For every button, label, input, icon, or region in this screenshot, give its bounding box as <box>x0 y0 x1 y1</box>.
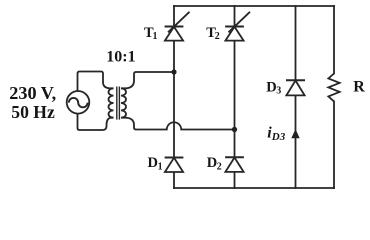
wire secondary top lead to node A <box>121 72 174 88</box>
thyristor T2 cathode bar <box>226 26 243 28</box>
diode D2 triangle <box>225 158 243 172</box>
thyristor T1 triangle <box>165 27 183 41</box>
thyristor T2 triangle <box>225 27 243 41</box>
svg-text:50 Hz: 50 Hz <box>11 102 55 122</box>
wire D3 branch top segment <box>295 6 297 80</box>
wire D2 branch bottom segment <box>234 172 236 188</box>
wire D1 branch bottom segment <box>173 172 175 188</box>
wire secondary bottom lead with crossover hop to node B <box>121 118 235 130</box>
svg-text:R: R <box>353 79 365 96</box>
svg-text:iD3: iD3 <box>267 124 285 143</box>
wire D3 branch bottom segment <box>295 96 297 189</box>
wire T1 branch top segment <box>173 6 175 27</box>
svg-text:D2: D2 <box>207 155 222 172</box>
diode D3 triangle <box>286 81 304 96</box>
wire primary bottom lead to source <box>78 113 114 130</box>
node A junction dot <box>171 69 176 74</box>
wire R branch bottom segment <box>333 101 335 188</box>
ac source V1 230V 50Hz <box>67 91 90 114</box>
svg-text:D3: D3 <box>266 79 281 96</box>
svg-text:T2: T2 <box>206 25 219 42</box>
resistor R zigzag <box>328 74 339 102</box>
thyristor T2 gate line <box>229 12 251 33</box>
svg-text:230 V,: 230 V, <box>9 83 56 103</box>
wire primary top lead from source <box>78 72 114 92</box>
svg-text:T1: T1 <box>144 25 157 42</box>
current iD3 arrowhead <box>291 129 299 138</box>
diode D1 triangle <box>165 158 183 172</box>
wire R branch top segment <box>333 6 335 74</box>
diode D3 cathode bar <box>287 79 304 81</box>
wire bottom rail <box>174 187 334 189</box>
transformer core line left <box>116 87 118 120</box>
wire top rail <box>174 5 334 7</box>
wire T2-D2 branch middle segment <box>234 41 236 158</box>
ac source sine symbol <box>69 98 88 107</box>
thyristor T1 cathode bar <box>166 26 183 28</box>
transformer primary winding <box>109 88 114 117</box>
node B junction dot <box>232 127 237 132</box>
diode D1 cathode bar <box>166 157 183 159</box>
wire T1-D1 branch middle segment <box>173 41 175 158</box>
diode D2 cathode bar <box>226 156 243 158</box>
wire T2 branch top segment <box>234 6 236 27</box>
transformer core line right <box>118 87 120 120</box>
svg-text:10:1: 10:1 <box>106 49 135 66</box>
svg-text:D1: D1 <box>148 155 163 172</box>
transformer secondary winding <box>121 88 126 117</box>
thyristor T1 gate line <box>168 12 190 33</box>
